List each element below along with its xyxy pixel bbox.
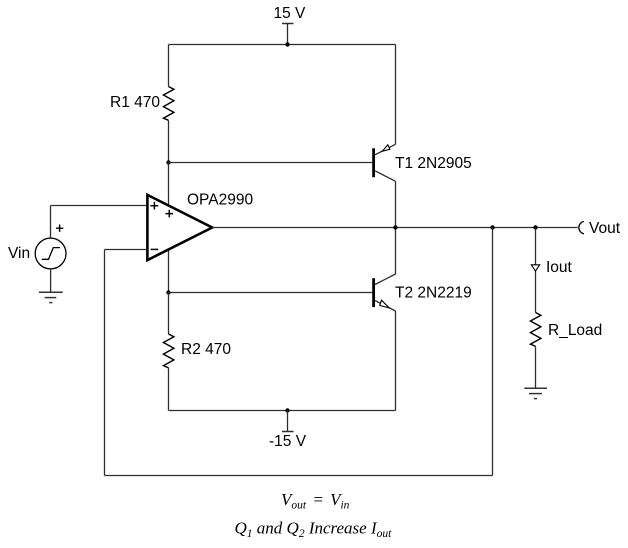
svg-text:Vin: Vin [8, 245, 30, 262]
wire output line [212, 227, 578, 229]
svg-text:R1 470: R1 470 [110, 94, 160, 111]
node A dot [166, 160, 170, 164]
net flag Vout connector [579, 221, 584, 233]
wire R2 top lead [168, 293, 170, 335]
wire 15V stub [287, 24, 289, 45]
op-amp U1 OPA2990 [147, 195, 212, 260]
power supply bar -15V [282, 431, 294, 433]
wire op-amp +input [51, 205, 148, 207]
wire T1 collector vertical from top rail [395, 45, 397, 145]
wire R_Load bottom lead [535, 346, 537, 388]
node dot top rail / 15V [285, 42, 289, 46]
current arrow Iout [531, 265, 539, 271]
wire T1 emitter to output line [395, 181, 397, 227]
resistor R2 [163, 334, 174, 368]
node dot output/T1T2 [393, 225, 397, 229]
svg-text:Vout: Vout [589, 220, 621, 237]
wire load branch upper [535, 228, 537, 313]
wire R2 bottom lead [168, 368, 170, 411]
svg-text:T1 2N2905: T1 2N2905 [395, 155, 472, 172]
resistor R1 [163, 87, 174, 121]
node B dot [166, 290, 170, 294]
node dot bottom rail / -15V [285, 408, 289, 412]
wire node A to op-amp V+ (vertical through op-amp) [168, 163, 170, 293]
svg-text:T2 2N2219: T2 2N2219 [395, 285, 472, 302]
ground (R_Load) [524, 388, 547, 398]
svg-text:-15 V: -15 V [269, 433, 307, 450]
wire T2 collector to output line [395, 228, 397, 275]
wire R1 top lead [168, 45, 170, 87]
wire feedback bottom [105, 475, 493, 477]
node dot output/feedback [490, 225, 494, 229]
node dot output/load [533, 225, 537, 229]
resistor R_Load [530, 313, 541, 347]
wire R1 bottom lead [168, 120, 170, 162]
transistor T2 2N2219 (NPN) [374, 274, 396, 311]
voltage source Vin [35, 206, 66, 293]
wire bottom rail [169, 410, 396, 412]
svg-text:Q1 and Q2 Increase Iout: Q1 and Q2 Increase Iout [235, 519, 393, 541]
wire op-amp -input [105, 249, 148, 251]
power supply bar +15V [282, 23, 294, 25]
svg-text:R_Load: R_Load [548, 322, 602, 339]
svg-text:R2 470: R2 470 [181, 341, 231, 358]
wire feedback right vertical [492, 228, 494, 476]
transistor T1 2N2905 (PNP) [374, 144, 396, 181]
svg-text:OPA2990: OPA2990 [187, 191, 253, 208]
svg-text:Iout: Iout [546, 259, 573, 276]
svg-text:Vout = Vin: Vout = Vin [281, 490, 350, 512]
wire T1 base [169, 162, 373, 164]
wire top rail [169, 44, 396, 46]
wire -15V stub [287, 411, 289, 432]
wire T2 emitter to bottom rail [395, 311, 397, 411]
wire feedback left vertical [104, 250, 106, 476]
wire T2 base [169, 292, 373, 294]
svg-text:15 V: 15 V [274, 5, 307, 22]
ground (Vin) [39, 292, 63, 302]
